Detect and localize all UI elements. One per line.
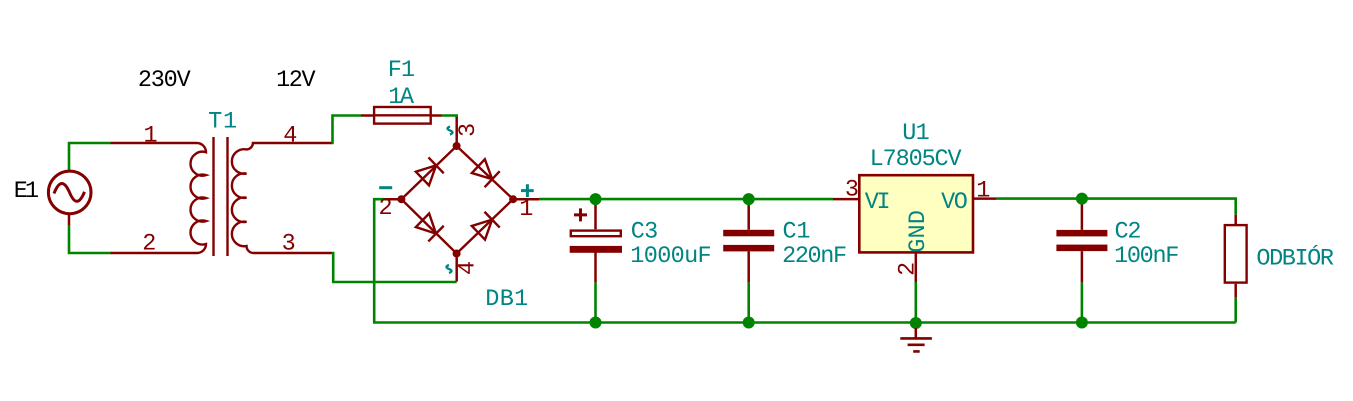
svg-text:1: 1: [519, 196, 533, 223]
svg-text:1: 1: [144, 122, 158, 149]
svg-text:100nF: 100nF: [1114, 243, 1178, 270]
bridge edges: [401, 146, 513, 254]
svg-text:DB1: DB1: [485, 286, 528, 313]
svg-text:1A: 1A: [388, 84, 415, 111]
bridge node left: [397, 195, 405, 203]
svg-text:L7805CV: L7805CV: [870, 146, 962, 173]
source E1: [48, 171, 91, 226]
diode D bottom-right: [471, 212, 500, 241]
capacitor C3: [570, 199, 622, 282]
bridge node top: [453, 142, 461, 150]
resistor ODBIOR: [1225, 215, 1247, 298]
C3 plus mark: [574, 208, 587, 221]
wire fuse to bridge pin3: [442, 116, 457, 119]
svg-text:U1: U1: [902, 120, 929, 147]
svg-text:12V: 12V: [276, 67, 315, 94]
bridge node bottom: [453, 250, 461, 258]
wire bridge plus to U1 VI: [539, 198, 833, 201]
junction C3 top: [590, 193, 602, 205]
wire T1 pin4 to fuse: [332, 116, 362, 144]
bridge DB1: [385, 117, 539, 282]
junction C2 top: [1076, 193, 1088, 205]
svg-text:2: 2: [895, 262, 922, 276]
svg-text:2: 2: [379, 195, 393, 222]
junction C2 bottom: [1076, 317, 1088, 329]
wire load bottom: [1234, 298, 1237, 323]
regulator U1: [833, 175, 996, 282]
wire U1 GND down: [914, 282, 917, 323]
AC mark top: [448, 127, 453, 135]
transformer T1: [111, 137, 332, 256]
capacitor C1: [723, 199, 774, 282]
bridge pin 4 line: [455, 254, 458, 282]
svg-text:E1: E1: [14, 178, 38, 205]
T1 left winding with pin1/pin2 lines: [111, 143, 207, 253]
bridge pin 2 line: [385, 198, 401, 201]
wire bridge minus to bottom rail: [374, 199, 385, 322]
svg-text:220nF: 220nF: [782, 243, 846, 270]
svg-text:1000uF: 1000uF: [630, 243, 711, 270]
svg-text:VO: VO: [941, 189, 967, 216]
svg-text:2: 2: [142, 231, 156, 258]
diode D top-right: [471, 158, 500, 187]
bridge pin 3 line: [455, 117, 458, 146]
bridge plus mark: [521, 184, 534, 197]
bridge node right: [509, 195, 517, 203]
svg-text:VI: VI: [865, 189, 889, 216]
junction GND: [910, 317, 922, 329]
svg-text:T1: T1: [208, 108, 238, 135]
wire C3 bottom: [594, 282, 597, 322]
junction C1 top: [743, 193, 755, 205]
svg-text:3: 3: [282, 230, 296, 257]
wire C2 bottom: [1081, 282, 1084, 322]
svg-text:230V: 230V: [138, 67, 191, 94]
wire bottom rail: [373, 321, 1236, 324]
capacitor C2: [1056, 199, 1107, 283]
fuse F1: [361, 107, 442, 124]
wire U1 VO to load: [996, 199, 1235, 215]
T1 core: [214, 137, 228, 256]
svg-text:4: 4: [283, 122, 297, 149]
svg-text:F1: F1: [388, 57, 415, 84]
ground symbol: [900, 328, 932, 351]
AC mark bottom: [447, 265, 452, 273]
svg-text:1: 1: [976, 178, 990, 205]
diode D top-left: [415, 157, 444, 186]
junction C3 bottom: [590, 317, 602, 329]
bridge minus mark: [379, 186, 392, 189]
diode D bottom-left: [415, 212, 444, 241]
wire E1 bottom to T1 pin2: [69, 226, 111, 253]
wire E1 top to T1 pin1: [69, 143, 111, 171]
junction C1 bottom: [743, 317, 755, 329]
wire T1 pin3 to bridge pin4: [332, 252, 457, 282]
wire C1 bottom: [747, 282, 750, 322]
svg-text:3: 3: [845, 176, 859, 203]
svg-text:GND: GND: [905, 210, 932, 253]
svg-text:C1: C1: [783, 219, 811, 246]
svg-text:C2: C2: [1115, 219, 1141, 246]
svg-text:3: 3: [455, 123, 482, 137]
svg-text:ODBIÓR: ODBIÓR: [1256, 245, 1333, 273]
T1 right winding with pin4/pin3 lines: [232, 143, 332, 253]
svg-text:C3: C3: [631, 219, 658, 246]
bridge pin 1 line: [513, 198, 539, 201]
svg-text:4: 4: [455, 261, 482, 275]
